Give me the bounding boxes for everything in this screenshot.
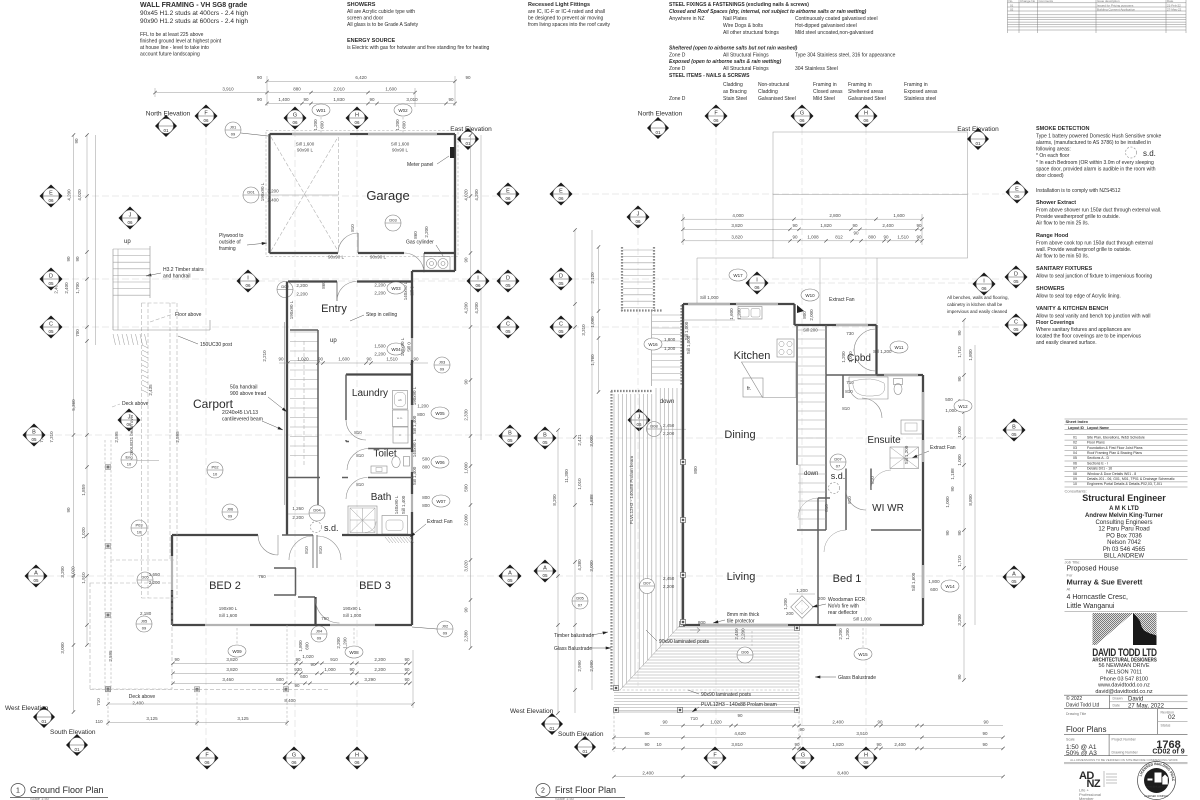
svg-text:1,510: 1,510	[386, 357, 398, 362]
svg-text:w.m.: w.m.	[397, 416, 403, 420]
svg-text:ENERGY SOURCE: ENERGY SOURCE	[347, 38, 396, 44]
svg-text:Air flow to be min 25 l/s.: Air flow to be min 25 l/s.	[1036, 221, 1089, 227]
svg-text:s.d.: s.d.	[1143, 149, 1156, 158]
svg-text:190x90 L: 190x90 L	[260, 182, 265, 201]
svg-text:cantilevered beam: cantilevered beam	[222, 417, 263, 423]
svg-text:90: 90	[318, 357, 324, 362]
svg-text:J06: J06	[227, 507, 234, 512]
svg-text:03: 03	[1073, 446, 1077, 450]
svg-text:W10: W10	[805, 293, 815, 298]
svg-text:8,400: 8,400	[284, 698, 296, 703]
grid line J ffp vertical	[637, 228, 639, 408]
svg-text:810: 810	[824, 504, 829, 512]
svg-text:1,200: 1,200	[313, 119, 318, 131]
grid line H ffp	[865, 128, 867, 745]
svg-text:A: A	[543, 566, 547, 572]
svg-text:90: 90	[945, 530, 950, 536]
bed2 north wall	[172, 534, 258, 536]
svg-text:www.davidtodd.co.nz: www.davidtodd.co.nz	[1097, 683, 1150, 689]
svg-text:90: 90	[792, 235, 798, 240]
svg-text:Timber balustrade: Timber balustrade	[554, 633, 594, 639]
svg-text:Status: Status	[1161, 724, 1171, 728]
svg-text:700: 700	[75, 329, 80, 337]
svg-text:01: 01	[975, 141, 981, 146]
svg-text:56 NEWMAN DRIVE: 56 NEWMAN DRIVE	[1098, 663, 1149, 669]
svg-text:90: 90	[448, 97, 454, 102]
door tag D02	[277, 282, 293, 298]
svg-text:90: 90	[799, 727, 805, 732]
svg-text:Bath: Bath	[371, 492, 392, 503]
svg-text:Sheltered areas: Sheltered areas	[848, 89, 884, 95]
svg-text:01: 01	[74, 747, 80, 752]
svg-text:Ph 03 546 4565: Ph 03 546 4565	[1103, 547, 1146, 553]
svg-text:W01: W01	[316, 108, 326, 113]
svg-text:Sill 1,200: Sill 1,200	[904, 445, 909, 464]
outdoor stair lower flight	[680, 305, 682, 386]
svg-text:1,600: 1,600	[729, 308, 734, 320]
svg-text:D01: D01	[247, 190, 255, 195]
grid marker G/06 ffp top	[791, 105, 814, 128]
svg-text:1,188: 1,188	[950, 468, 955, 480]
ensuite door arc	[862, 398, 882, 418]
2400/8400 row	[614, 776, 1003, 778]
svg-text:90: 90	[916, 223, 922, 228]
joint tag J06/09	[222, 504, 238, 520]
svg-text:05: 05	[1013, 327, 1019, 332]
svg-text:01: 01	[1073, 435, 1077, 439]
svg-text:G: G	[292, 753, 296, 759]
svg-text:260UB31 beam over: 260UB31 beam over	[129, 414, 134, 456]
svg-text:s.d.: s.d.	[831, 471, 846, 481]
north elevation marker 01	[155, 115, 177, 137]
svg-text:PLVL12H3 - 140x88 Prolam beam: PLVL12H3 - 140x88 Prolam beam	[701, 702, 777, 708]
tile hatch below bath	[385, 537, 390, 543]
svg-text:27-May-22: 27-May-22	[1167, 7, 1182, 11]
grid marker H/06 ffp bottom	[855, 747, 878, 770]
grid marker B/05 right	[499, 425, 522, 448]
svg-text:SHOWERS: SHOWERS	[1036, 286, 1065, 292]
svg-text:600: 600	[305, 642, 310, 650]
svg-text:Scale: Scale	[1066, 737, 1075, 741]
svg-text:Type 1 battery powered Domesti: Type 1 battery powered Domestic Hush Sen…	[1036, 134, 1162, 140]
svg-text:1,859: 1,859	[81, 484, 86, 496]
svg-text:06: 06	[863, 118, 869, 123]
grid marker A/05 ffp right	[1003, 566, 1026, 589]
svg-text:2,421: 2,421	[577, 434, 582, 446]
door tag D08	[647, 422, 662, 437]
window tag W02	[394, 104, 412, 116]
living open side posts	[681, 460, 686, 465]
grid marker H/06	[346, 107, 369, 130]
laundry walls	[346, 373, 412, 375]
grid marker J/06 upper	[119, 207, 142, 230]
door tag D05/07	[572, 593, 588, 609]
deck vertical stripes	[614, 388, 681, 690]
svg-text:1,010: 1,010	[577, 478, 582, 490]
svg-text:2,400: 2,400	[832, 719, 844, 724]
svg-text:is Electric with gas for hotwa: is Electric with gas for hotwater and fr…	[347, 45, 490, 51]
svg-text:3,820: 3,820	[731, 223, 743, 228]
west elevation marker 01	[33, 706, 55, 728]
svg-text:Drawing Number: Drawing Number	[1112, 750, 1139, 754]
svg-text:3,020: 3,020	[464, 560, 469, 572]
svg-text:Dining: Dining	[724, 429, 755, 441]
svg-text:BED 3: BED 3	[359, 580, 391, 592]
svg-text:1,020: 1,020	[710, 719, 722, 724]
bed3 door arc bottom	[316, 599, 340, 623]
ensuite walls	[826, 374, 884, 376]
svg-text:05: 05	[558, 281, 564, 286]
svg-text:Allow to seal junction of fixt: Allow to seal junction of fixture to imp…	[1036, 274, 1152, 280]
svg-text:1,800: 1,800	[664, 337, 676, 342]
svg-text:2,200: 2,200	[336, 637, 341, 649]
svg-text:ALL DIMENSIONS TO BE VERIFIED: ALL DIMENSIONS TO BE VERIFIED ON SITE BE…	[1070, 758, 1178, 762]
svg-text:11,300: 11,300	[564, 469, 569, 483]
svg-text:150UC30 post: 150UC30 post	[200, 342, 233, 348]
svg-text:800: 800	[422, 465, 430, 470]
svg-text:01: 01	[582, 749, 588, 754]
svg-text:730: 730	[846, 331, 854, 336]
svg-text:05: 05	[1011, 579, 1017, 584]
grid marker E/06 left	[40, 185, 63, 208]
svg-text:2,210: 2,210	[262, 350, 267, 362]
svg-text:Cladding: Cladding	[758, 89, 778, 95]
svg-text:2,200: 2,200	[741, 628, 746, 640]
window tag W01	[312, 104, 330, 116]
bed1 walls	[817, 498, 819, 625]
svg-text:J: J	[637, 212, 640, 218]
svg-text:wb: wb	[398, 398, 402, 402]
grid marker A/05 ffp left	[534, 560, 557, 583]
window tag W06	[431, 456, 449, 468]
svg-text:Where sanitary fixtures and ap: Where sanitary fixtures and appliances a…	[1036, 327, 1131, 333]
section marker I/06 left	[237, 270, 260, 293]
grid marker C/05 left	[40, 316, 63, 339]
svg-text:screen and door: screen and door	[347, 16, 383, 22]
svg-text:A M K LTD: A M K LTD	[1109, 506, 1139, 512]
svg-text:D07: D07	[643, 581, 651, 586]
svg-text:06: 06	[863, 760, 869, 765]
svg-text:2/240x45 LVL13: 2/240x45 LVL13	[222, 410, 258, 416]
svg-text:Kitchen: Kitchen	[734, 350, 771, 362]
east wall below garage	[411, 271, 413, 338]
ffp outer walls	[682, 304, 684, 625]
svg-text:Plywood to: Plywood to	[219, 233, 244, 239]
svg-text:810: 810	[870, 476, 875, 484]
leader J01 to garage corner	[241, 133, 268, 136]
svg-text:810: 810	[356, 482, 364, 487]
svg-text:West Elevation: West Elevation	[510, 708, 554, 715]
svg-text:C: C	[559, 322, 563, 328]
svg-text:90: 90	[257, 97, 263, 102]
east elevation marker 01 ffp	[967, 128, 989, 150]
svg-text:South Elevation: South Elevation	[558, 731, 604, 738]
toilet WC	[392, 457, 400, 468]
section marker I/06 right	[467, 270, 490, 293]
svg-text:Structural Engineer: Structural Engineer	[1082, 493, 1166, 503]
svg-text:North Elevation: North Elevation	[638, 111, 683, 118]
svg-text:STEEL ITEMS - NAILS & SCREWS: STEEL ITEMS - NAILS & SCREWS	[669, 73, 750, 79]
svg-text:Sections A - D: Sections A - D	[1087, 456, 1109, 460]
svg-text:90: 90	[404, 677, 410, 682]
svg-text:1,200: 1,200	[783, 598, 788, 610]
south elevation marker 01 ffp	[574, 736, 596, 758]
svg-text:05: 05	[31, 437, 37, 442]
svg-text:1,000: 1,000	[945, 496, 950, 508]
svg-text:Anywhere in NZ: Anywhere in NZ	[669, 16, 705, 22]
svg-text:Sill 1,600: Sill 1,600	[391, 142, 410, 147]
grid marker G/06 ffp bottom	[792, 747, 815, 770]
grid row A ffp	[556, 575, 1003, 577]
tag P03/10	[131, 520, 147, 536]
svg-text:2,200: 2,200	[374, 657, 386, 662]
tag J05/09	[136, 616, 152, 632]
svg-text:2,400: 2,400	[894, 742, 906, 747]
grid marker C/05 right	[497, 316, 520, 339]
svg-text:1,500: 1,500	[374, 344, 386, 349]
svg-text:90: 90	[174, 657, 180, 662]
svg-text:90: 90	[792, 223, 798, 228]
svg-text:200: 200	[786, 611, 794, 616]
svg-text:4,620: 4,620	[734, 731, 746, 736]
svg-text:Woodsman ECR: Woodsman ECR	[828, 597, 866, 603]
svg-text:3,020: 3,020	[71, 566, 76, 578]
svg-text:Little Wanganui: Little Wanganui	[1067, 603, 1115, 610]
svg-text:Details D01 - 16: Details D01 - 16	[1087, 467, 1112, 471]
svg-text:Sill 1,000: Sill 1,000	[700, 295, 719, 300]
svg-text:Sill 1,600: Sill 1,600	[911, 572, 916, 591]
svg-text:Extract Fan: Extract Fan	[427, 519, 453, 525]
svg-text:Project Number: Project Number	[1112, 737, 1137, 741]
svg-text:06: 06	[1014, 194, 1020, 199]
window tag W09	[228, 645, 246, 657]
wall below garage east	[454, 253, 456, 271]
svg-text:© 2022: © 2022	[1066, 695, 1082, 702]
left dim lines	[73, 135, 75, 712]
deck boards lower band	[614, 693, 799, 711]
svg-text:North Elevation: North Elevation	[146, 111, 191, 118]
svg-text:800: 800	[693, 466, 698, 474]
svg-text:1,510: 1,510	[897, 235, 909, 240]
svg-text:90: 90	[66, 256, 71, 262]
deck above west dashed rect	[90, 583, 172, 689]
svg-text:up: up	[330, 338, 337, 344]
svg-text:07: 07	[836, 464, 841, 469]
svg-text:J02: J02	[442, 624, 449, 629]
svg-text:J: J	[129, 213, 132, 219]
roof step outline to wall	[820, 258, 877, 324]
grid marker C/05 ffp right	[1005, 314, 1028, 337]
door tag D04	[309, 505, 325, 521]
svg-text:01: 01	[163, 128, 169, 133]
cpbd doors	[854, 329, 876, 351]
svg-text:2: 2	[541, 788, 545, 795]
svg-text:90x90 laminated posts: 90x90 laminated posts	[701, 692, 752, 698]
svg-text:Entry: Entry	[321, 303, 347, 315]
svg-text:90: 90	[957, 376, 962, 382]
grid marker A/05 right	[499, 565, 522, 588]
window tag W07	[432, 495, 450, 507]
svg-text:01: 01	[41, 719, 47, 724]
svg-text:2,200: 2,200	[374, 352, 386, 357]
svg-text:90: 90	[983, 719, 989, 724]
svg-text:2,450: 2,450	[734, 628, 739, 640]
svg-text:1,090: 1,090	[590, 316, 595, 328]
svg-text:760: 760	[321, 616, 329, 621]
svg-text:810: 810	[847, 496, 852, 504]
svg-text:1,020: 1,020	[302, 654, 314, 659]
svg-text:rear deflector: rear deflector	[828, 610, 858, 616]
svg-text:Murray & Sue Everett: Murray & Sue Everett	[1067, 578, 1143, 587]
svg-text:2,200: 2,200	[424, 226, 429, 238]
svg-text:06: 06	[203, 118, 209, 123]
svg-text:down: down	[660, 399, 674, 405]
svg-text:2,800: 2,800	[829, 213, 841, 218]
stair landing wall	[621, 309, 663, 311]
svg-text:500: 500	[945, 397, 953, 402]
bed2 west wall	[171, 535, 173, 556]
svg-text:David: David	[1128, 696, 1143, 702]
svg-text:90: 90	[257, 75, 263, 80]
svg-text:3,310: 3,310	[581, 324, 586, 336]
svg-text:Date: Date	[1113, 704, 1120, 708]
svg-text:Ensuite: Ensuite	[867, 435, 901, 446]
svg-text:BILL ANDREW: BILL ANDREW	[1104, 554, 1144, 560]
svg-text:D06: D06	[741, 650, 749, 655]
svg-text:NELSON 7011: NELSON 7011	[1106, 670, 1142, 676]
svg-text:Deck above: Deck above	[129, 694, 156, 700]
svg-text:3,460: 3,460	[222, 677, 234, 682]
window tag W14	[941, 580, 959, 592]
svg-text:90: 90	[303, 97, 309, 102]
svg-text:Drawing Title: Drawing Title	[1066, 712, 1086, 716]
garage person door D03 arc	[423, 253, 425, 272]
svg-text:06: 06	[981, 286, 987, 291]
svg-text:Layout Name: Layout Name	[1087, 426, 1109, 430]
grid marker J/06 ffp mid	[628, 409, 651, 432]
deck bottom horizontal stripes	[623, 627, 799, 687]
svg-text:BED 2: BED 2	[209, 580, 241, 592]
svg-text:2,330: 2,330	[464, 409, 469, 421]
svg-text:90: 90	[950, 486, 955, 492]
grid marker C/05 ffp left	[550, 316, 573, 339]
joint tag J03/09	[434, 357, 450, 373]
svg-text:Sill 1,000: Sill 1,000	[343, 613, 362, 618]
svg-text:05: 05	[558, 329, 564, 334]
svg-text:door closed): door closed)	[1036, 173, 1064, 179]
svg-text:W05: W05	[435, 411, 445, 416]
grid line E row	[62, 195, 498, 197]
svg-text:12 Paru Paru Road: 12 Paru Paru Road	[1098, 527, 1149, 533]
svg-text:1,830: 1,830	[333, 97, 345, 102]
svg-text:90: 90	[794, 742, 800, 747]
garage top windows	[292, 133, 350, 135]
svg-text:1,650: 1,650	[149, 572, 161, 577]
svg-text:09: 09	[443, 631, 448, 636]
svg-text:2,595: 2,595	[108, 650, 113, 662]
svg-text:3,820: 3,820	[226, 667, 238, 672]
svg-text:05: 05	[507, 438, 513, 443]
bath south wall	[342, 534, 412, 536]
svg-text:1,800: 1,800	[928, 579, 940, 584]
svg-text:4,200: 4,200	[474, 302, 479, 314]
grid marker F/06 bottom	[196, 747, 219, 770]
svg-text:PLVL12H3 - 140x88 Prolam beam: PLVL12H3 - 140x88 Prolam beam	[629, 456, 634, 524]
svg-text:90: 90	[644, 731, 650, 736]
svg-text:3,290: 3,290	[364, 677, 376, 682]
svg-text:3,200: 3,200	[267, 189, 279, 194]
svg-text:FFL to be at least 225 above: FFL to be at least 225 above	[140, 32, 204, 38]
svg-text:90: 90	[853, 231, 859, 236]
svg-text:H: H	[864, 111, 868, 117]
svg-text:tr: tr	[399, 433, 401, 437]
svg-text:Sill 1,000: Sill 1,000	[853, 617, 872, 622]
svg-text:E: E	[1015, 187, 1019, 193]
svg-text:Extract Fan: Extract Fan	[829, 297, 855, 303]
svg-text:W15: W15	[858, 652, 868, 657]
section line I-I ffp	[768, 282, 974, 284]
svg-text:2,000: 2,000	[464, 514, 469, 526]
svg-text:90: 90	[883, 235, 889, 240]
svg-text:D02: D02	[281, 284, 289, 289]
double doors at partition	[312, 535, 314, 568]
svg-text:Cladding: Cladding	[723, 82, 743, 88]
svg-text:P02: P02	[211, 465, 219, 470]
svg-text:2,595: 2,595	[175, 431, 180, 443]
grid marker G/06 bottom	[283, 747, 306, 770]
grid marker B/05 left	[23, 424, 46, 447]
svg-text:90: 90	[369, 97, 375, 102]
svg-text:david@davidtodd.co.nz: david@davidtodd.co.nz	[1095, 689, 1153, 695]
svg-text:Nelson 7042: Nelson 7042	[1107, 540, 1141, 546]
svg-text:J04: J04	[316, 629, 323, 634]
stairwell treads	[798, 329, 826, 331]
svg-text:3,200: 3,200	[60, 566, 65, 578]
svg-text:06: 06	[713, 118, 719, 123]
ffp right dim lines	[963, 320, 965, 680]
grid marker F/06 ffp bottom	[704, 747, 727, 770]
svg-text:900 above tread: 900 above tread	[230, 391, 266, 397]
svg-text:2,400: 2,400	[267, 198, 279, 203]
svg-text:1,760: 1,760	[590, 354, 595, 366]
interior dim row entry	[279, 362, 428, 364]
smoke detector symbol s.d.	[1126, 147, 1137, 158]
garage door leaf and arc	[357, 233, 359, 253]
svg-text:06: 06	[204, 760, 210, 765]
svg-text:3,010: 3,010	[406, 97, 418, 102]
svg-text:located the floor coverings ar: located the floor coverings are to be im…	[1036, 334, 1142, 340]
svg-text:2,400: 2,400	[132, 701, 144, 706]
svg-text:1,260: 1,260	[292, 506, 304, 511]
svg-text:05: 05	[542, 440, 548, 445]
svg-text:B: B	[32, 430, 36, 436]
svg-text:E: E	[559, 189, 563, 195]
svg-text:All are Acrylic cubicle type w: All are Acrylic cubicle type with	[347, 9, 415, 15]
svg-text:90: 90	[957, 530, 962, 536]
svg-text:G: G	[293, 113, 297, 119]
stair up arrow dashed	[303, 340, 305, 465]
grid marker B/05 ffp left	[534, 427, 557, 450]
svg-text:Glass Balustrade: Glass Balustrade	[554, 646, 592, 652]
svg-text:3,000: 3,000	[589, 435, 594, 447]
svg-text:1,020: 1,020	[297, 357, 309, 362]
svg-text:Hot-dipped galvanised steel: Hot-dipped galvanised steel	[795, 23, 857, 29]
grid line B row	[45, 434, 500, 436]
bath tub	[382, 516, 408, 535]
svg-text:framing: framing	[219, 246, 236, 252]
svg-text:1,200: 1,200	[417, 404, 429, 409]
bed2 door arc	[258, 535, 278, 555]
